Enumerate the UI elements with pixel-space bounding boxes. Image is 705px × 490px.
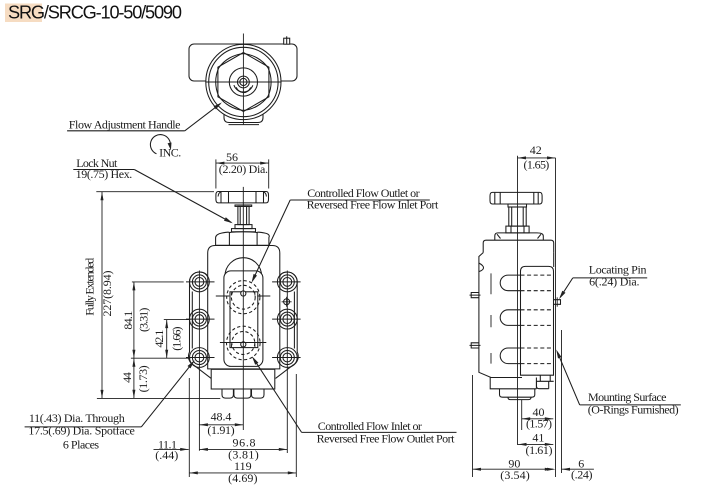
front view vertical centerline (242, 187, 244, 430)
side stem (509, 207, 526, 226)
side lock nut (506, 226, 529, 233)
dim 40 extension (521, 400, 523, 430)
side base lower nub (508, 397, 531, 399)
side base block (490, 378, 536, 389)
top port inner dashed circle (231, 285, 255, 309)
front knob end scallop arcs (218, 192, 266, 197)
dim 11.1 arrowhead (180, 448, 189, 451)
svg-text:44: 44 (120, 372, 134, 383)
right bolt hole top spotface (280, 275, 294, 289)
dim 42 line (518, 157, 556, 159)
right ear outline (276, 272, 299, 378)
svg-text:INC.: INC. (159, 146, 181, 160)
svg-text:84.1: 84.1 (121, 311, 135, 330)
left bolt hole bottom hole (195, 353, 204, 362)
port face plate (224, 271, 263, 367)
dim 90 arrows (473, 468, 482, 471)
front stem (238, 206, 249, 224)
outlet label underline (290, 199, 430, 201)
bottom port outer dashed circle (227, 326, 261, 360)
svg-text:(1.91): (1.91) (207, 423, 234, 437)
dim 42.1 arrows (165, 320, 168, 329)
svg-text:(.44): (.44) (155, 448, 178, 462)
dim 42 arrows (518, 156, 527, 159)
dim 119 line (189, 472, 296, 474)
left ear web line (191, 292, 193, 349)
top port outer dashed circle (227, 281, 260, 314)
spotface leader (141, 362, 193, 427)
svg-text:(1.66): (1.66) (169, 326, 183, 350)
side view vertical centerline (517, 156, 519, 445)
left bolt hole top boss (190, 272, 210, 292)
top port seat ticks (232, 292, 255, 295)
top port center circle (241, 291, 246, 296)
outlet leader arrowhead (252, 274, 258, 283)
dim 44 arrows (132, 358, 135, 367)
locating pin leader arrowhead (559, 291, 566, 300)
handle slot arc inner (236, 87, 250, 92)
dim 84.1 line (133, 282, 135, 358)
side base steps right (537, 375, 554, 389)
leader arrowhead (214, 102, 222, 109)
svg-text:(1.73): (1.73) (136, 365, 150, 392)
dim 227 bottom extension (97, 397, 220, 399)
dim 6 arrows outside (547, 468, 556, 471)
lock nut (216, 232, 270, 246)
side collar chamfer ticks (497, 234, 541, 238)
title highlight (5, 4, 42, 23)
svg-text:(.24): (.24) (571, 467, 593, 481)
svg-text:42: 42 (530, 143, 542, 157)
left bolt hole middle boss (190, 309, 210, 329)
right bolt hole top hole (283, 278, 292, 287)
locating pin side (554, 300, 561, 305)
locating pin underline (573, 277, 647, 279)
svg-text:(3.31): (3.31) (137, 308, 151, 332)
front knob (216, 192, 269, 203)
side knob segment lines (495, 192, 538, 204)
center screw inner ring (240, 78, 247, 85)
dim 56 arrows (216, 162, 225, 165)
side bonnet (483, 240, 554, 252)
spring dome arc (225, 258, 262, 276)
dim 44 line (133, 358, 135, 398)
right bolt hole top boss (277, 272, 297, 292)
side knob (490, 192, 542, 204)
bolt hole horizontal ticks right (272, 282, 301, 358)
left bolt hole top spotface (192, 275, 206, 289)
base bump left (222, 389, 233, 398)
bolt hole vertical centerline left (198, 271, 200, 451)
dim 6 tail line (562, 468, 594, 470)
left bolt hole bottom boss (190, 348, 210, 368)
svg-text:Reversed Free Flow Outlet Port: Reversed Free Flow Outlet Port (317, 431, 456, 445)
right bolt hole middle spotface (280, 312, 294, 326)
side left lug lower (470, 343, 481, 348)
handle inner circle (209, 47, 278, 116)
INC rotation arc (150, 135, 170, 154)
dim 48.4 line (199, 424, 243, 426)
svg-text:17.5(.69) Dia. Spotface: 17.5(.69) Dia. Spotface (28, 424, 135, 438)
svg-text:(3.54): (3.54) (500, 468, 530, 482)
left flange extension line (188, 378, 190, 477)
left ear outline (188, 272, 211, 378)
dim 56 extension lines (216, 159, 269, 188)
mounting plate (521, 266, 554, 375)
right bolt hole bottom hole (283, 353, 292, 362)
mounting surface leader (557, 352, 579, 405)
svg-text:227(8.94): 227(8.94) (100, 271, 114, 317)
center screw outer ring (238, 76, 250, 88)
mounting surface underline (580, 404, 681, 406)
inlet label underline (302, 431, 457, 433)
svg-text:42.1: 42.1 (152, 330, 166, 348)
port boss bottom (500, 348, 520, 364)
svg-text:(2.20) Dia.: (2.20) Dia. (219, 162, 268, 176)
front knob segment lines (221, 192, 264, 203)
dim 90 left extension (472, 375, 474, 477)
front knob hub (235, 205, 252, 206)
dim 84.1 top extension (132, 281, 184, 283)
dim 119 arrows (189, 471, 198, 474)
svg-text:Flow Adjustment Handle: Flow Adjustment Handle (69, 118, 181, 132)
inner bore rectangle (230, 292, 258, 348)
svg-text:Fully Extended: Fully Extended (83, 258, 97, 316)
right bolt hole middle hole (283, 315, 292, 324)
top view horizontal centerline (206, 81, 281, 83)
dim 44 middle extension (131, 357, 190, 359)
dim 84.1 arrows (132, 282, 135, 291)
top view plug fitting (284, 36, 290, 44)
side base bumps (500, 389, 535, 397)
dim 227 line (101, 192, 103, 399)
handle hexagon (218, 53, 269, 112)
spotface label underline (25, 426, 142, 428)
right flange extension line (295, 374, 297, 477)
base block (211, 369, 275, 389)
svg-text:(1.57): (1.57) (526, 417, 552, 431)
dim 41 line (518, 443, 553, 445)
port dashed lines bottom (521, 348, 554, 364)
side lock nut facets (511, 226, 524, 233)
bolt hole horizontal ticks left (186, 282, 215, 358)
dim 42.1 top extension (164, 319, 191, 321)
bolt hole vertical centerline right (286, 271, 288, 454)
locating pin leader (560, 278, 573, 297)
side knob hub (508, 204, 527, 207)
right bolt hole bottom spotface (280, 351, 294, 365)
dim 41 arrows (518, 443, 527, 446)
svg-text:(4.69): (4.69) (228, 471, 257, 485)
Lock Nut leader arrowhead (224, 217, 233, 223)
front stem thread lines (240, 206, 246, 224)
svg-text:6 Places: 6 Places (63, 438, 100, 452)
side body left bump arc (479, 263, 484, 272)
dim 40 line (522, 418, 554, 420)
base bump right (252, 389, 265, 398)
side stem thread lines (512, 207, 524, 226)
front stem washer (235, 225, 252, 229)
outlet leader (253, 200, 290, 280)
top view vertical centerline (242, 34, 244, 125)
port boss middle (500, 310, 520, 326)
handle slot arc outer (234, 85, 253, 92)
dim 96.8 line (199, 448, 287, 450)
dim 40 arrows (522, 417, 531, 420)
leader to handle (185, 104, 221, 131)
dim 42.1 line (166, 320, 168, 359)
left bolt hole middle spotface (192, 312, 206, 326)
pin extension line (561, 330, 563, 473)
bottom port inner dashed circle (232, 332, 255, 355)
lock nut facet lines (229, 232, 257, 245)
dim 227 top extension (96, 191, 214, 193)
locating pin tick (556, 297, 558, 306)
handle hub circle (229, 68, 257, 96)
svg-text:(1.61): (1.61) (526, 443, 553, 457)
inlet leader (254, 359, 302, 433)
side body outline (479, 253, 554, 378)
handle lobed grip outline (216, 54, 271, 111)
INC arc arrowhead (168, 143, 172, 151)
main body (208, 246, 280, 369)
bottom port seat ticks (232, 344, 255, 347)
right bolt hole bottom boss (277, 348, 297, 368)
side left lug upper (470, 293, 481, 298)
front stem washer 2 (232, 229, 256, 232)
top view bottom tab (224, 100, 263, 123)
top view body rectangle (189, 44, 297, 81)
port boss top (500, 275, 520, 291)
port dashed lines top (521, 275, 554, 291)
bottom port horizontal centerline (220, 342, 266, 344)
left bolt hole middle hole (195, 315, 204, 324)
bottom port center circle (241, 342, 246, 347)
label underline (67, 130, 185, 132)
port dashed lines middle (521, 310, 554, 326)
side hidden bolt lines (490, 273, 492, 363)
dim 90 line (473, 468, 554, 470)
side collar (495, 233, 544, 240)
left bolt hole top hole (195, 278, 204, 287)
dim 56 line (216, 162, 269, 164)
Lock Nut leader (134, 170, 231, 223)
dim 11.1 line (154, 448, 189, 450)
mounting surface leader arrowhead (556, 350, 561, 359)
svg-text:(1.65): (1.65) (524, 157, 550, 171)
base bump middle (234, 389, 251, 398)
svg-text:SRG/SRCG-10-50/5090: SRG/SRCG-10-50/5090 (8, 2, 182, 22)
right ear web line (293, 292, 295, 349)
top view bottom tab inner line (229, 124, 260, 126)
spotface leader arrowhead (188, 360, 195, 368)
svg-text:6(.24) Dia.: 6(.24) Dia. (589, 275, 639, 289)
locating pin mark (282, 297, 292, 307)
top port side ticks (216, 295, 270, 297)
mounting surface extension line (555, 158, 557, 477)
handle outer circle (206, 44, 281, 119)
left bolt hole bottom spotface (192, 351, 206, 365)
Lock Nut underline (73, 169, 134, 171)
svg-text:48.4: 48.4 (211, 410, 232, 424)
inlet leader arrowhead (252, 356, 259, 365)
dim 227 arrows (101, 192, 104, 201)
dim 96.8 arrows (199, 448, 208, 451)
dim 48.4 arrows (199, 423, 208, 426)
right bolt hole middle boss (277, 309, 297, 329)
